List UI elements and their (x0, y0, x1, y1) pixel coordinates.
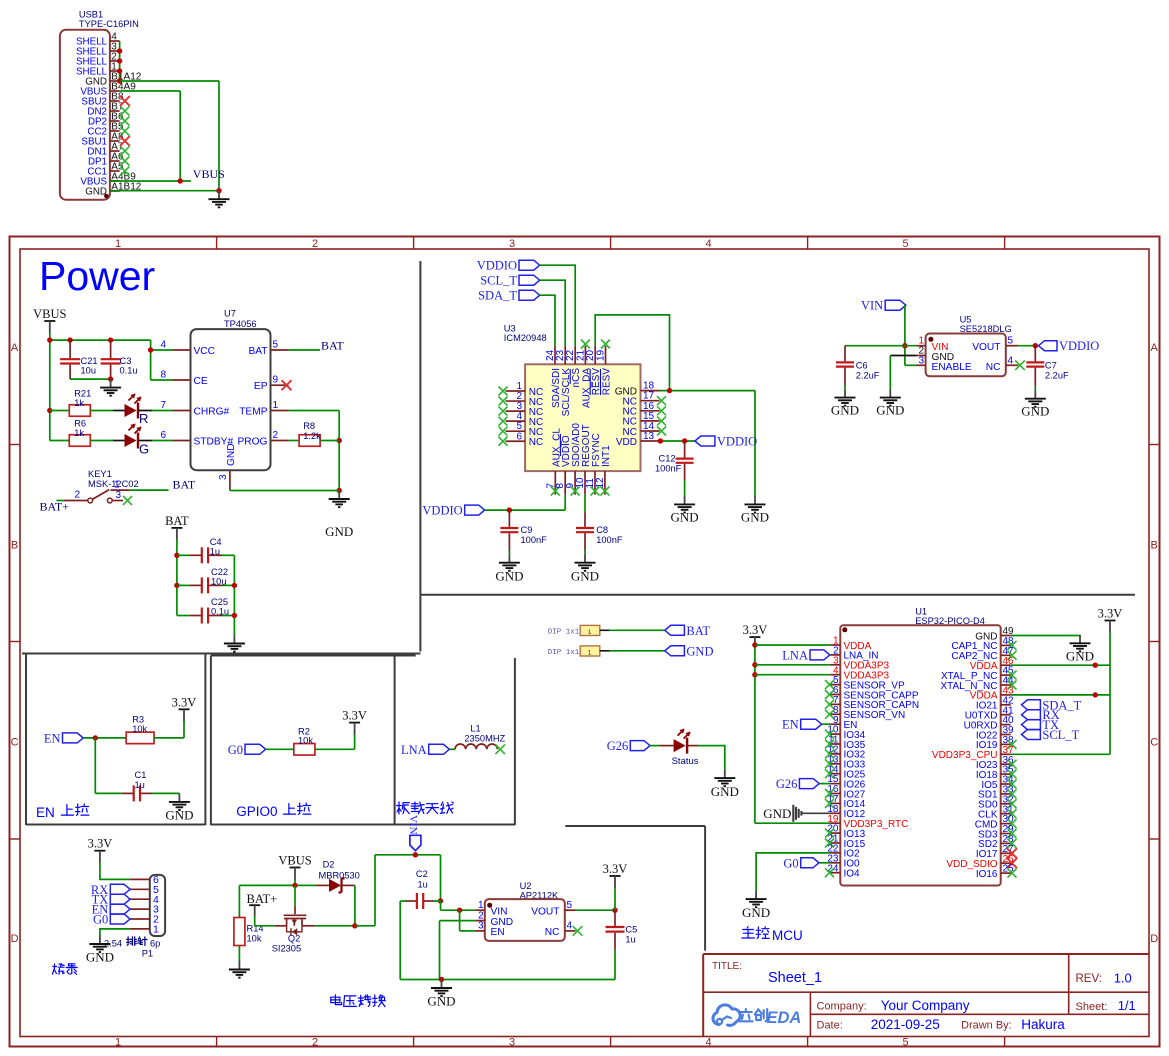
svg-text:GND: GND (711, 784, 739, 799)
USB1 pin B1A12 GND (85, 72, 142, 88)
no-connect X (1008, 819, 1017, 828)
net flag SCL_T (U1) (1022, 730, 1041, 740)
svg-text:4: 4 (706, 238, 712, 250)
svg-text:VDDIO: VDDIO (1059, 339, 1099, 353)
svg-text:GND: GND (165, 808, 193, 823)
wire C2 left to gnd rail (399, 901, 401, 980)
no-connect X (657, 427, 666, 436)
svg-text:BAT+: BAT+ (40, 500, 70, 514)
U2 pin 3 EN (475, 921, 504, 938)
svg-text:GND: GND (1066, 649, 1094, 664)
svg-text:C12: C12 (659, 454, 676, 464)
ground U5 GND (889, 389, 891, 398)
svg-text:1: 1 (588, 629, 592, 636)
no-connect X (600, 487, 609, 496)
svg-text:D2: D2 (323, 860, 335, 870)
svg-text:2: 2 (312, 238, 318, 250)
svg-text:Date:: Date: (817, 1020, 843, 1032)
svg-text:VBUS: VBUS (193, 167, 225, 181)
no-connect X (825, 740, 834, 749)
IC U5 SE5218DLG (926, 315, 1012, 377)
wire SCL_T to U3 pin23 (540, 280, 566, 346)
section label voltage convert (331, 995, 342, 1005)
U3 pin 7 AUX_CL (545, 428, 562, 495)
svg-text:C2: C2 (416, 869, 428, 879)
svg-text:2: 2 (312, 1037, 318, 1049)
svg-text:SI2305: SI2305 (272, 944, 301, 954)
U3 pin 20 RESV (585, 346, 602, 395)
capacitor C3 (101, 340, 138, 379)
svg-text:L1: L1 (470, 724, 480, 734)
no-connect X (1008, 671, 1017, 680)
U5 pin 3 ENABLE (917, 355, 972, 373)
svg-text:C3: C3 (120, 356, 132, 366)
USB1 pin 4 SHELL (76, 32, 120, 48)
no-connect X (red) (120, 136, 130, 146)
wire SDA_T to U3 pin24 (540, 295, 555, 346)
no-connect X (1008, 799, 1017, 808)
svg-text:U1: U1 (915, 607, 927, 617)
svg-text:TITLE:: TITLE: (712, 961, 742, 972)
svg-text:VBUS: VBUS (33, 307, 66, 321)
svg-text:P1: P1 (142, 949, 153, 959)
svg-text:1: 1 (153, 924, 159, 936)
svg-text:TEMP: TEMP (239, 407, 268, 418)
no-connect X (499, 417, 508, 426)
svg-text:Drawn By:: Drawn By: (961, 1020, 1012, 1032)
svg-text:4: 4 (706, 1037, 712, 1049)
wire DIP1 to BAT tag (610, 629, 665, 631)
svg-text:VCC: VCC (194, 346, 216, 357)
wire TEMP to GND rail (289, 411, 342, 494)
USB1 pin A4B9 VBUS (80, 172, 136, 188)
svg-text:6: 6 (160, 430, 166, 441)
U1 pin 20 IO13 (827, 824, 865, 840)
no-connect X (120, 167, 129, 176)
no-connect X (120, 127, 129, 136)
IC U1 ESP32-PICO-D4 (840, 607, 1000, 886)
net flag SDA_T (478, 289, 540, 303)
svg-text:GND: GND (571, 569, 599, 584)
U3 pin 6 NC (506, 431, 544, 448)
svg-text:GND: GND (85, 187, 107, 198)
wire BAT cap bank left (174, 553, 179, 616)
wire R2 to 3.3V (315, 730, 355, 749)
svg-text:GND: GND (495, 569, 523, 584)
U1 pin 29 SD3 (978, 824, 1014, 840)
svg-text:GND: GND (671, 510, 699, 525)
net flag LNA (antenna) (429, 744, 450, 754)
svg-text:G26: G26 (607, 739, 629, 753)
svg-text:3: 3 (478, 921, 484, 932)
U7 pin 3 GND (bottom) (218, 443, 237, 490)
USB1 pin A5 CC1 (87, 162, 124, 178)
U1 pin 1 VDDA (830, 636, 871, 652)
svg-text:PROG: PROG (237, 437, 267, 448)
no-connect X U2 pin4 (573, 926, 583, 936)
USB1 pin B5 CC2 (87, 122, 124, 138)
svg-text:Sheet:: Sheet: (1076, 1001, 1108, 1013)
svg-text:3: 3 (116, 490, 122, 501)
U1 pin 25 IO16 (976, 864, 1014, 880)
net flag VDDIO (top) (477, 259, 540, 273)
svg-text:0.1u: 0.1u (120, 366, 138, 376)
no-connect X (657, 416, 666, 425)
no-connect X (120, 157, 129, 166)
svg-text:EDA: EDA (767, 1009, 802, 1027)
ground U1 pin49 (1079, 635, 1081, 644)
net flag G26 (U1) (776, 777, 830, 791)
wire 3.3V right rail (1011, 633, 1110, 755)
wire Q2 drain to VIN node (315, 852, 443, 928)
LED G (green) (90, 424, 172, 457)
section label GPIO0 pullup (236, 803, 311, 819)
power flag VBUS (33, 307, 66, 340)
P1 pin 6 (130, 874, 159, 886)
U1 pin 6 SENSOR_CAPP (830, 685, 919, 701)
capacitor C6 (836, 346, 880, 389)
svg-text:B: B (11, 540, 18, 552)
U1 pin 48 CAP1_NC (951, 636, 1014, 652)
transistor Q2 SI2305 (PMOS) (255, 885, 315, 953)
svg-text:SCL_T: SCL_T (480, 274, 517, 288)
svg-text:8: 8 (160, 370, 166, 381)
svg-text:R6: R6 (74, 419, 86, 429)
svg-text:C7: C7 (1045, 361, 1057, 371)
U3 pin 10 REGOUT (575, 424, 592, 494)
wire EN node (83, 735, 126, 793)
U1 pin 49 GND (975, 626, 1014, 642)
wire GND net USB (110, 81, 222, 193)
capacitor C4 (177, 537, 235, 564)
svg-text:G0: G0 (93, 913, 108, 927)
P1 pin 2 (130, 914, 159, 926)
wire SHELL bus (117, 41, 122, 84)
U3 pin 18 GND (615, 381, 660, 398)
ground cap bank (233, 635, 235, 644)
capacitor C2 (400, 869, 440, 909)
svg-text:C1: C1 (135, 770, 147, 780)
svg-text:GPIO0: GPIO0 (236, 804, 277, 819)
svg-text:1: 1 (115, 238, 121, 250)
U3 pin 12 INT1 (595, 445, 612, 495)
svg-text:6p: 6p (150, 939, 160, 949)
no-connect X (825, 759, 834, 768)
no-connect X (825, 799, 834, 808)
U7 pin 1 TEMP (239, 400, 288, 418)
svg-text:0.1u: 0.1u (211, 607, 229, 617)
svg-text:3: 3 (218, 474, 229, 480)
net flag VDDIO (bottom left) (422, 504, 484, 518)
U1 pin 46 VDDA (970, 656, 1014, 672)
U3 pin 16 NC (623, 401, 660, 418)
U3 pin 13 VDD (616, 431, 660, 448)
svg-text:U3: U3 (504, 324, 516, 334)
svg-text:2: 2 (273, 430, 279, 441)
svg-text:GND: GND (325, 524, 353, 539)
svg-text:GND: GND (427, 994, 455, 1009)
U1 pin 42 IO21 (976, 695, 1014, 711)
wire U3 VDD pin13 (658, 438, 695, 443)
svg-text:A: A (1151, 342, 1159, 354)
U1 pin 3 VDDA3P3 (830, 655, 889, 671)
sheet frame (10, 237, 1160, 1049)
svg-text:5: 5 (903, 1037, 909, 1049)
svg-text:LNA: LNA (782, 648, 808, 662)
no-connect X (825, 769, 834, 778)
U5 pin 1 VIN (917, 336, 949, 353)
wire BAT cap bank right (232, 555, 237, 635)
no-connect X (657, 396, 666, 405)
no-connect X (1008, 641, 1017, 650)
net flag G0 (prog) (110, 914, 130, 924)
capacitor C1 (95, 770, 179, 801)
no-connect X KEY1 pin3 (123, 496, 132, 505)
U7 pin 7 CHRG# (160, 400, 229, 418)
net flag TX (U1) (1022, 720, 1041, 730)
svg-text:NC: NC (545, 927, 560, 938)
U1 pin 31 CLK (978, 804, 1014, 820)
wire DIP2 to GND tag (610, 650, 665, 652)
power flag 3.3V (prog) (94, 850, 105, 852)
svg-text:DIP 1x1: DIP 1x1 (548, 649, 580, 657)
USB1 pin B4A9 VBUS (80, 82, 136, 98)
svg-text:G: G (139, 442, 149, 457)
no-connect X (825, 829, 834, 838)
USB1 pin A7 DN1 (87, 142, 124, 158)
svg-text:2350MHZ: 2350MHZ (464, 734, 505, 744)
svg-text:3: 3 (509, 1037, 515, 1049)
no-connect X (499, 387, 508, 396)
svg-text:INT1: INT1 (601, 445, 612, 467)
net flag GND (tag) (665, 646, 685, 656)
U1 pin 34 IO5 (981, 775, 1014, 791)
ground under C7 (1034, 390, 1036, 399)
wire KEY1 to BAT (129, 489, 169, 491)
net flag VDDIO (right of U3) (695, 436, 715, 446)
no-connect X (825, 710, 834, 719)
svg-text:BAT: BAT (248, 346, 267, 357)
U1 pin 12 IO32 (827, 745, 865, 761)
svg-text:4: 4 (160, 340, 166, 351)
svg-text:10u: 10u (81, 366, 97, 376)
U7 pin 2 PROG (237, 430, 288, 448)
no-connect X (499, 407, 508, 416)
wire 3.3V to P1 pin6 (100, 862, 130, 879)
ground under C9 (508, 554, 510, 563)
capacitor C12 (655, 441, 694, 496)
wire VOUT to C5 (576, 908, 618, 913)
U1 pin 7 SENSOR_CAPN (830, 695, 919, 711)
capacitor C25 (177, 597, 235, 624)
section label burn (53, 964, 65, 975)
svg-text:U5: U5 (960, 315, 972, 325)
svg-text:9: 9 (273, 375, 279, 386)
svg-text:1.2k: 1.2k (303, 431, 321, 441)
capacitor C22 (177, 567, 235, 593)
EasyEDA logo (713, 1005, 740, 1026)
U2 pin 5 VOUT (531, 900, 575, 917)
U1 pin 32 SD0 (978, 794, 1014, 810)
wire U5 GND pin2 (890, 356, 916, 390)
U1 pin 11 IO35 (828, 735, 866, 751)
svg-text:2.2uF: 2.2uF (1045, 371, 1069, 381)
U1 pin 4 VDDA3P3 (830, 665, 889, 681)
svg-text:GND: GND (831, 403, 859, 418)
no-connect X U3 pin19 (601, 340, 610, 349)
USB1 pin 3 SHELL (76, 42, 120, 58)
svg-text:VOUT: VOUT (531, 906, 559, 917)
label main MCU (742, 927, 803, 943)
svg-text:G26: G26 (776, 777, 798, 791)
power flag 3.3V (U1 left) (749, 636, 760, 638)
net flag G0 (GPIO0 pullup) (245, 744, 266, 754)
no-connect X (825, 868, 834, 877)
ground under C8 (584, 554, 586, 563)
U3 pin 4 NC (506, 411, 544, 428)
svg-text:1: 1 (478, 900, 484, 911)
no-connect X (red) (1007, 858, 1017, 868)
no-connect X (825, 789, 834, 798)
U1 pin 26 VDD_SDIO (946, 854, 1014, 870)
svg-text:GND: GND (741, 510, 769, 525)
svg-text:BAT: BAT (173, 478, 196, 492)
wire R14 to gnd (238, 946, 240, 962)
svg-text:C21: C21 (81, 356, 98, 366)
svg-text:R21: R21 (74, 389, 91, 399)
U5 pin 2 GND (917, 346, 955, 363)
svg-text:LNA: LNA (401, 743, 427, 757)
no-connect X (1008, 740, 1017, 749)
net flag G0 (U1) (783, 856, 830, 870)
U1 pin 41 U0TXD (965, 705, 1014, 721)
svg-text:Power: Power (39, 253, 155, 299)
ground EN pullup (178, 793, 180, 802)
svg-text:5: 5 (903, 238, 909, 250)
svg-text:VBUS: VBUS (278, 854, 311, 868)
P1 pin 1 (130, 924, 159, 936)
svg-text:1: 1 (588, 650, 592, 657)
U1 pin 5 SENSOR_VP (830, 675, 905, 691)
no-connect X (1008, 770, 1017, 779)
svg-text:EN: EN (44, 731, 61, 745)
power flag 3.3V (U1 right) (1105, 620, 1116, 622)
no-connect X (825, 700, 834, 709)
U1 pin 33 SD1 (978, 785, 1014, 801)
no-connect X (591, 487, 600, 496)
no-connect X (120, 107, 129, 116)
U3 pin 21 AUX_DA (575, 346, 592, 408)
svg-text:GND: GND (686, 644, 713, 658)
U1 pin 37 VDD3P3_CPU (932, 745, 1014, 761)
net flag EN (U1) (782, 718, 830, 732)
wire 3.3V rail left of U1 (752, 642, 830, 823)
svg-text:Your Company: Your Company (881, 998, 970, 1013)
U1 pin 47 CAP2_NC (951, 646, 1014, 662)
U5 pin 5 VOUT (972, 336, 1018, 353)
wire U3 GND pin18 net (660, 388, 756, 496)
svg-text:1: 1 (115, 1037, 121, 1049)
svg-text:DIP 1x1: DIP 1x1 (548, 628, 580, 636)
svg-text:ENABLE: ENABLE (932, 362, 972, 373)
svg-text:Q2: Q2 (288, 934, 300, 944)
wire VBUS rail (239, 880, 315, 918)
svg-text:GND: GND (1021, 404, 1049, 419)
net flag BAT (tag) (665, 625, 685, 635)
svg-text:3.3V: 3.3V (88, 837, 113, 851)
section divider lines (22, 261, 1135, 951)
no-connect X (1008, 789, 1017, 798)
U3 pin 1 NC (506, 381, 544, 398)
ground U1 pin22 (755, 891, 757, 900)
overline nCS (569, 369, 571, 384)
svg-text:CHRG#: CHRG# (194, 407, 230, 418)
U7 pin 9 EP (254, 375, 289, 393)
svg-text:SDA_T: SDA_T (478, 289, 517, 303)
svg-text:10k: 10k (247, 934, 262, 944)
svg-text:1k: 1k (74, 398, 84, 408)
wire U1 pin49 to gnd (1011, 634, 1080, 637)
LED Status (650, 729, 699, 767)
USB1 pin 1 SHELL (76, 62, 120, 78)
ground right of U3 (754, 496, 756, 505)
wire U3 pin10 to C8 (584, 495, 586, 512)
net flag LNA (U1) (782, 648, 830, 662)
diode D2 MBR0530 (316, 860, 360, 893)
U7 pin 5 BAT (248, 340, 288, 358)
U3 pin 22 nCS (565, 346, 582, 388)
svg-text:GND: GND (763, 806, 791, 821)
svg-text:C4: C4 (210, 537, 222, 547)
svg-text:SCL_T: SCL_T (1042, 728, 1079, 742)
svg-text:GND: GND (742, 905, 770, 920)
wire G0 to R2 (266, 748, 294, 750)
wire U7 GND (230, 490, 339, 492)
svg-text:CE: CE (194, 376, 208, 387)
svg-text:KEY1: KEY1 (88, 469, 112, 479)
U7 pin 6 STDBY# (160, 430, 233, 448)
gnd rail (vconv) (400, 977, 615, 982)
no-connect X (499, 397, 508, 406)
no-connect X U5 pin4 (1015, 361, 1025, 371)
P1 pin 4 (130, 894, 159, 906)
U1 pin 17 IO14 (827, 794, 865, 810)
ground status LED (724, 770, 726, 779)
svg-text:MCU: MCU (772, 928, 803, 943)
U2 pin 2 GND (475, 910, 513, 927)
svg-text:10u: 10u (211, 577, 227, 587)
U1 pin 35 IO18 (976, 765, 1014, 781)
no-connect X (551, 487, 560, 496)
svg-text:3.3V: 3.3V (743, 623, 768, 637)
U3 pin 8 VDDIO (555, 435, 572, 495)
svg-text:VIN: VIN (491, 906, 508, 917)
U1 pin 44 XTAL_N_NC (940, 676, 1014, 692)
svg-text:NC: NC (529, 437, 543, 448)
U3 pin 2 NC (506, 391, 544, 408)
no-connect X U3 pin21 (581, 340, 590, 349)
U1 pin 43 VDDA (970, 686, 1014, 702)
svg-text:G0: G0 (783, 856, 798, 870)
net flag TX (110, 894, 130, 904)
no-connect X (1008, 760, 1017, 769)
power flag BAT (165, 514, 189, 555)
wire U2 GND down (440, 921, 476, 980)
wire U3 pin20 to GND net (595, 315, 669, 391)
svg-text:C22: C22 (211, 567, 228, 577)
svg-text:1: 1 (273, 400, 279, 411)
wire VIN down to U5 (902, 305, 916, 365)
